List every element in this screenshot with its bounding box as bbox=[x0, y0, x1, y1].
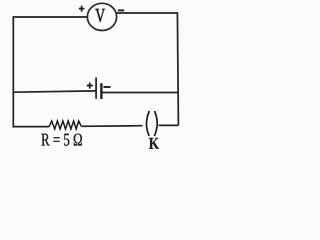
key K right contact ) bbox=[154, 111, 157, 136]
wire middle right (cell - to right vertical) bbox=[103, 92, 179, 94]
cell - polarity mark bbox=[104, 86, 111, 88]
voltmeter + polarity mark bbox=[79, 6, 85, 12]
wire middle left (to cell +) bbox=[13, 91, 96, 92]
key label K bbox=[149, 138, 159, 149]
wire bottom-left (to resistor) bbox=[13, 126, 49, 128]
wire bottom-right (key to right vertical) bbox=[159, 124, 179, 126]
wire bottom-middle (resistor to key) bbox=[81, 125, 142, 128]
cell short plate (-) bbox=[100, 83, 102, 99]
voltmeter V1 bbox=[87, 3, 116, 30]
key K left contact ( bbox=[146, 111, 149, 136]
voltmeter V label bbox=[95, 9, 105, 22]
wire top-left (voltmeter + lead) bbox=[13, 16, 88, 18]
resistor R1 zigzag bbox=[49, 121, 81, 129]
resistor value label R = 5 ohm bbox=[41, 134, 82, 146]
voltmeter - polarity mark bbox=[118, 9, 124, 11]
cell long plate (+) bbox=[95, 78, 97, 99]
cell + polarity mark bbox=[87, 83, 93, 89]
wire right vertical bbox=[177, 13, 178, 126]
wire top-right (voltmeter - lead) bbox=[116, 12, 178, 14]
wire left vertical bbox=[12, 16, 14, 127]
